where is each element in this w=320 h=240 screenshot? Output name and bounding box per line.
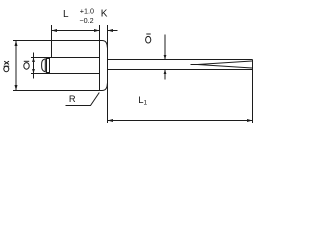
svg-text:K: K <box>101 8 108 19</box>
svg-text:−0.2: −0.2 <box>79 16 93 25</box>
svg-text:R: R <box>69 94 76 104</box>
svg-text:+1.0: +1.0 <box>80 6 94 15</box>
svg-text:L1: L1 <box>138 95 147 107</box>
svg-text:L: L <box>63 9 69 20</box>
